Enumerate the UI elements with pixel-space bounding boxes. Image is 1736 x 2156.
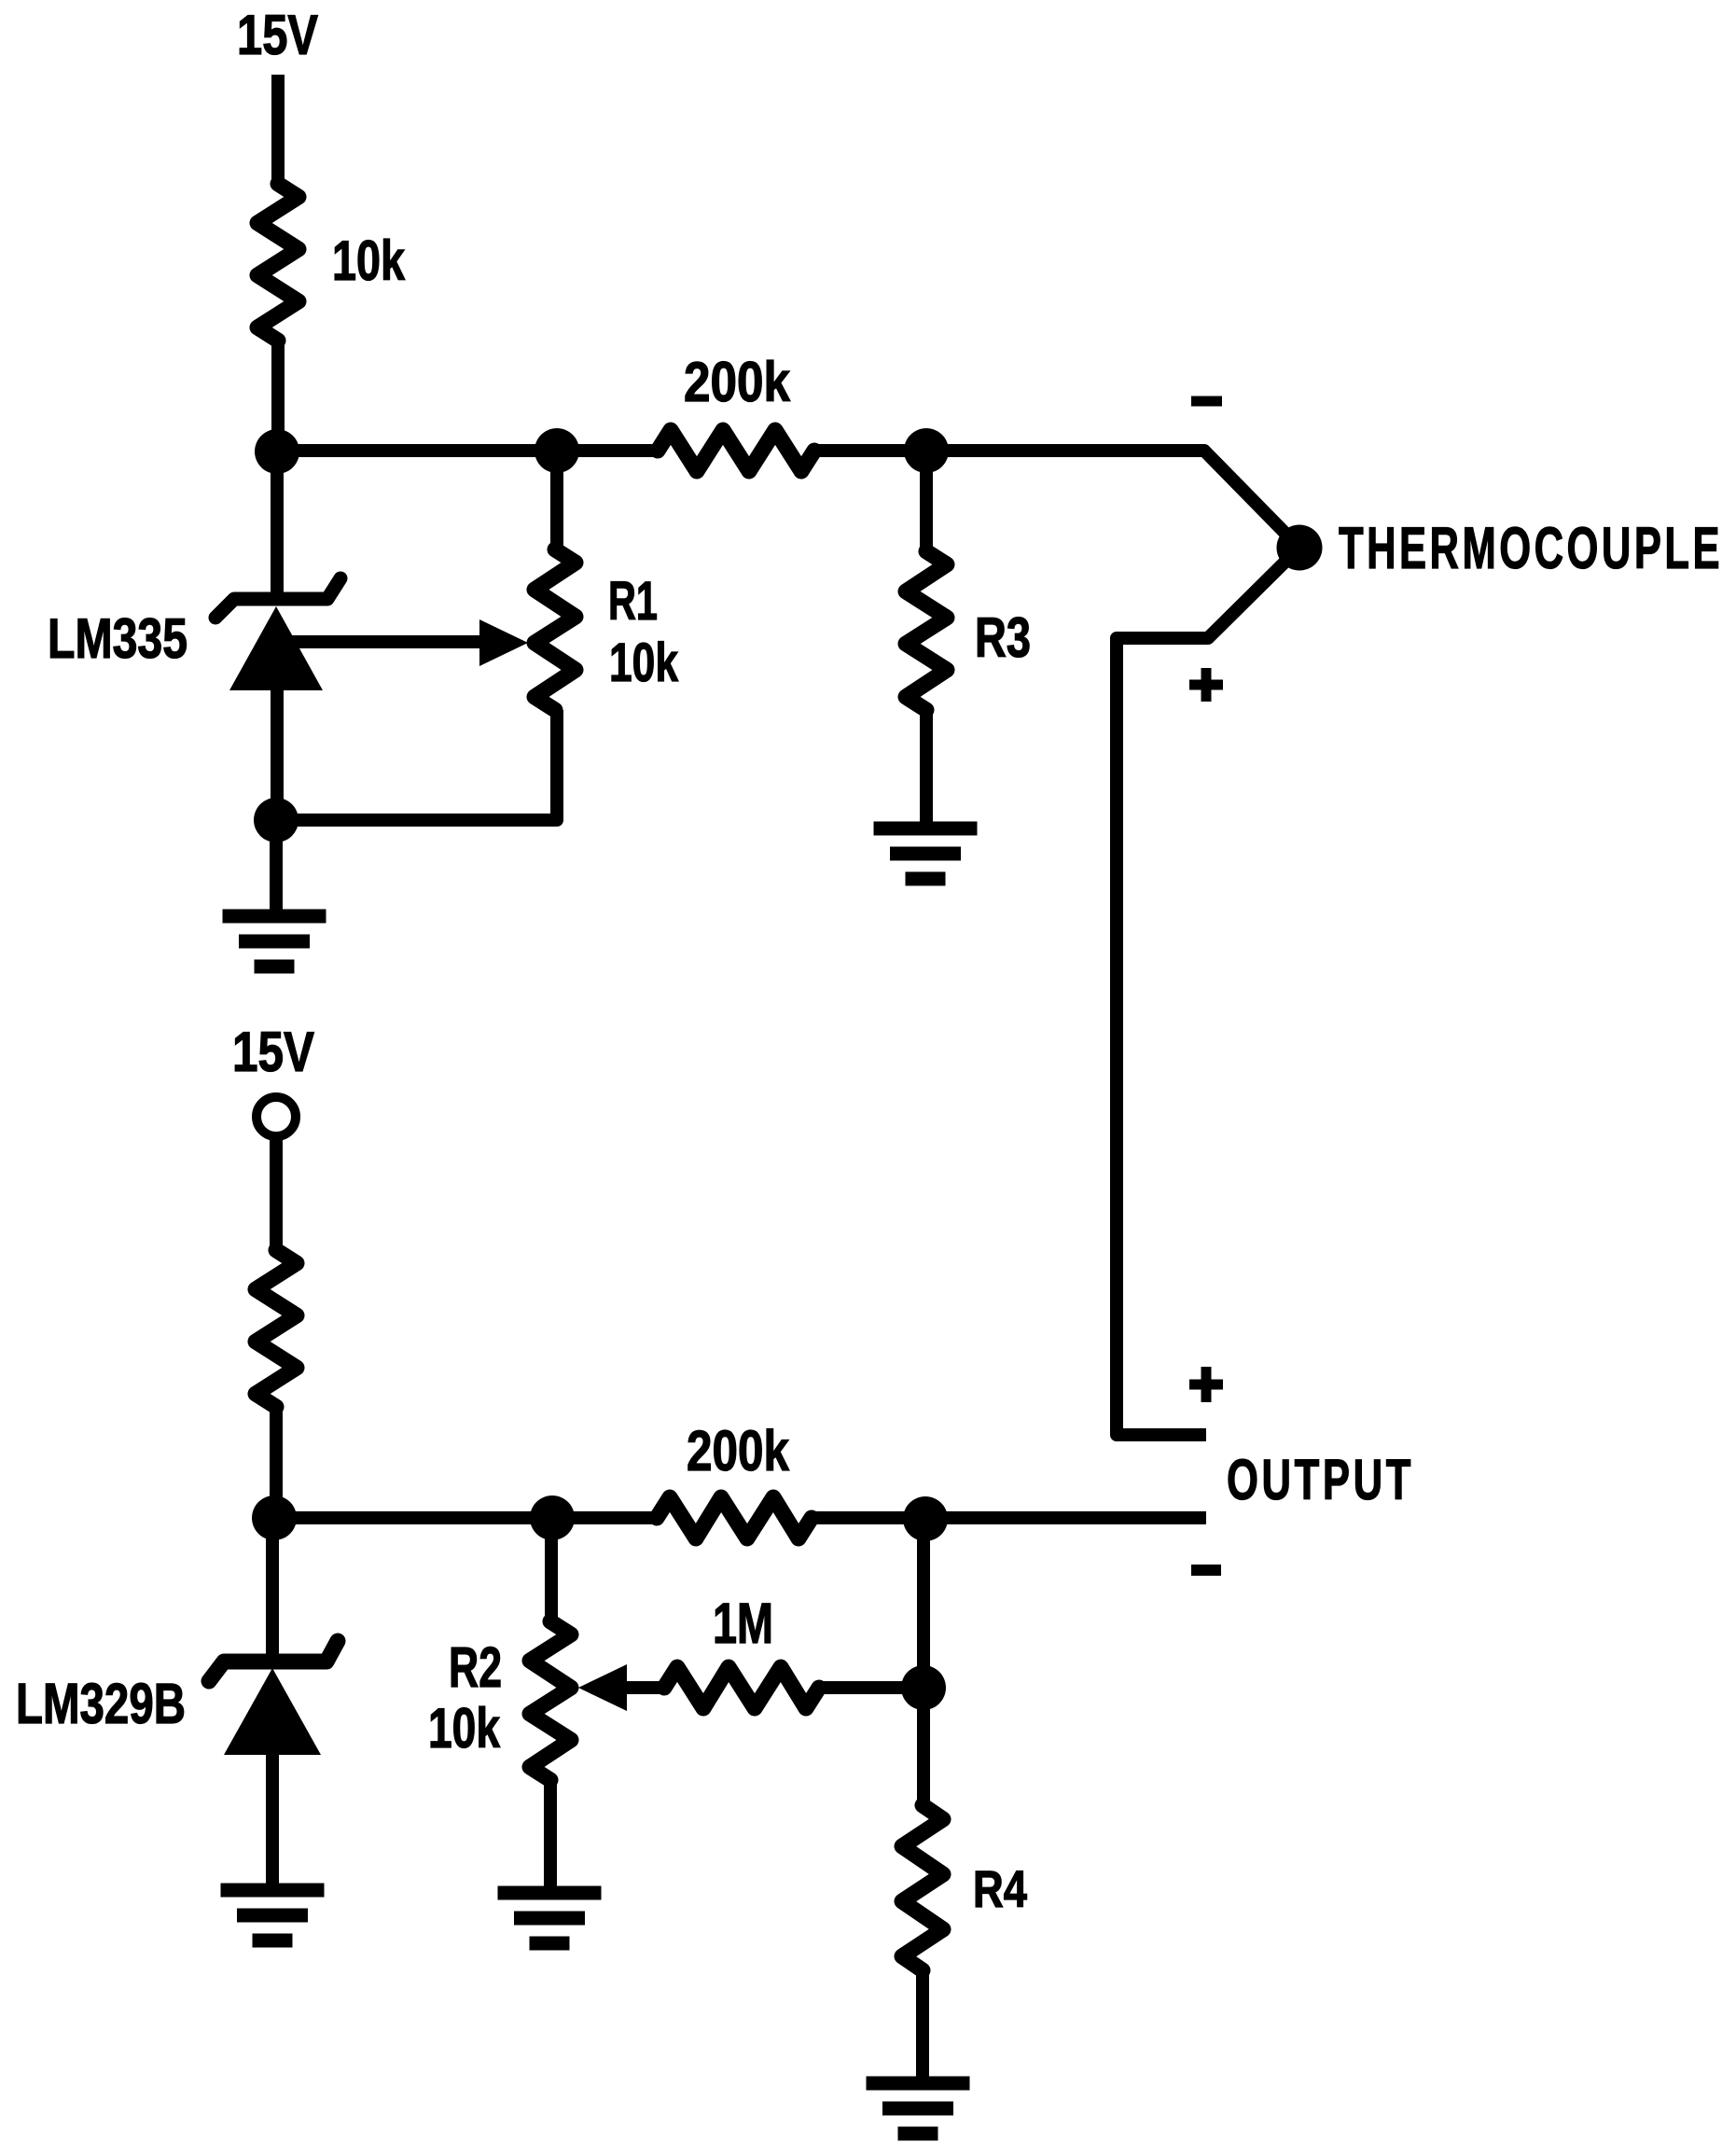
wire R3 to ground: [920, 710, 933, 823]
wiper arrowhead into R2: [578, 1664, 627, 1711]
plus polarity mark (thermocouple): [1189, 668, 1223, 702]
resistor 200k (bottom): [657, 1497, 812, 1538]
svg-text:LM335: LM335: [48, 607, 187, 670]
resistor R3: [906, 551, 947, 710]
svg-text:10k: 10k: [332, 230, 405, 292]
zener diode LM329B anode triangle: [224, 1668, 321, 1755]
thermocouple lower lead wire down to output plus stub: [1117, 548, 1299, 1435]
wire R4 to ground: [916, 1970, 929, 2078]
node D junction dot: [254, 798, 299, 842]
minus polarity mark (thermocouple): [1191, 396, 1222, 407]
resistor 10k (top): [257, 184, 299, 341]
top rail wire node A to node C: [277, 444, 926, 457]
svg-text:LM329B: LM329B: [16, 1672, 186, 1735]
svg-text:15V: 15V: [237, 4, 318, 66]
wire R2 bottom to ground: [544, 1780, 557, 1887]
wire middle resistor to node E: [270, 1407, 283, 1518]
svg-text:THERMOCOUPLE: THERMOCOUPLE: [1339, 516, 1723, 581]
potentiometer R1 10k: [535, 549, 576, 710]
wire node E down to LM329B: [266, 1518, 279, 1659]
bottom rail wire node E to node G: [274, 1511, 925, 1524]
wire node F down to R2: [545, 1518, 558, 1621]
resistor R4: [902, 1805, 943, 1970]
svg-text:R4: R4: [973, 1859, 1027, 1918]
wire node C down to R3: [920, 451, 933, 551]
wire 1M to node H: [819, 1681, 924, 1694]
wire node A down to LM335: [271, 451, 284, 597]
thermocouple junction dot: [1277, 525, 1323, 571]
power terminal circle: [257, 1097, 296, 1136]
wire node C to thermocouple upper lead: [926, 451, 1299, 548]
zener diode LM335 anode triangle: [229, 606, 323, 690]
wire node B down to R1: [550, 451, 563, 549]
wire 15V to 10k resistor: [271, 75, 285, 184]
svg-text:10k: 10k: [428, 1697, 500, 1760]
minus polarity mark (output): [1191, 1565, 1221, 1576]
ground symbol (LM329B): [221, 1890, 325, 1940]
wire node G down through node H to R4: [917, 1518, 930, 1805]
ground symbol (R4): [867, 2083, 970, 2134]
node G junction dot: [903, 1496, 948, 1541]
node C junction dot: [904, 428, 949, 473]
ground symbol (LM335): [223, 916, 326, 967]
svg-text:200k: 200k: [687, 1419, 789, 1482]
wire node D to ground: [270, 820, 283, 911]
svg-text:15V: 15V: [232, 1021, 314, 1083]
node H junction dot: [901, 1665, 946, 1710]
wire R1 bottom to node D: [276, 710, 557, 820]
potentiometer R2 10k: [530, 1621, 571, 1780]
resistor 200k (top): [658, 430, 814, 471]
node B junction dot: [535, 428, 579, 473]
plus polarity mark (output): [1189, 1367, 1223, 1402]
wiper wire LM335 to R1 arrow: [277, 635, 483, 648]
svg-text:1M: 1M: [713, 1592, 773, 1655]
node A junction dot: [255, 429, 299, 474]
ground symbol (R2): [498, 1893, 602, 1943]
wire terminal to middle resistor: [270, 1136, 283, 1250]
wire 10k resistor to node A: [271, 341, 285, 451]
zener diode LM329B cathode bar with bent tips: [209, 1641, 338, 1681]
wire node G to output minus stub: [925, 1511, 1206, 1524]
wire LM335 anode to node D: [271, 690, 284, 820]
svg-text:200k: 200k: [684, 351, 791, 413]
ground symbol (R3): [874, 828, 978, 879]
node F junction dot: [530, 1495, 575, 1540]
resistor (middle, unlabeled): [256, 1250, 297, 1407]
wiper arrowhead into R1: [479, 619, 528, 666]
svg-text:OUTPUT: OUTPUT: [1227, 1448, 1414, 1511]
node E junction dot: [252, 1495, 297, 1540]
zener diode LM335 cathode bar with bent tips: [215, 578, 340, 618]
wiper wire R2 arrow to 1M resistor: [627, 1681, 664, 1694]
svg-text:R2: R2: [449, 1635, 502, 1699]
svg-text:R3: R3: [975, 606, 1031, 669]
wire LM329B anode to ground: [266, 1755, 279, 1885]
resistor 1M: [664, 1667, 819, 1708]
svg-text:10k: 10k: [609, 633, 679, 693]
svg-text:R1: R1: [608, 571, 658, 632]
